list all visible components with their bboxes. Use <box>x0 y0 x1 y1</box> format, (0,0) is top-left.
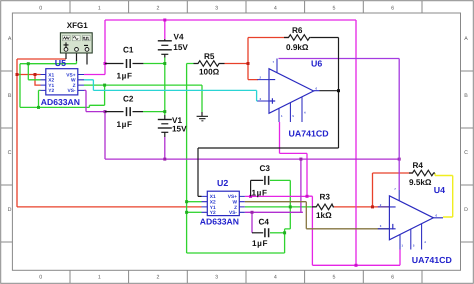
svg-text:B: B <box>8 93 12 99</box>
svg-text:1µF: 1µF <box>117 71 133 80</box>
svg-text:X1: X1 <box>48 72 54 78</box>
svg-text:1kΩ: 1kΩ <box>316 211 332 220</box>
wire magenta V4 top stub <box>164 20 166 39</box>
svg-text:Y1: Y1 <box>48 83 54 89</box>
svg-text:B: B <box>464 93 468 99</box>
wire green bottom loop to C4/C3 <box>187 180 291 253</box>
svg-text:6: 6 <box>391 5 394 11</box>
svg-text:A: A <box>8 36 12 42</box>
multiplier U2 AD633AN <box>200 178 245 227</box>
wire green XFG~ down <box>76 61 78 64</box>
wire green C2 right <box>143 111 165 113</box>
pin numbers U6 <box>260 60 318 118</box>
resistor R6 <box>284 26 310 52</box>
battery V4 <box>158 41 172 55</box>
svg-text:Y1: Y1 <box>210 205 216 211</box>
svg-text:Z: Z <box>73 83 76 89</box>
wire red left border vertical <box>16 59 18 207</box>
svg-text:C3: C3 <box>260 164 271 173</box>
svg-text:C: C <box>464 150 468 156</box>
op-amp U4 UA741CD <box>378 185 452 265</box>
svg-text:R3: R3 <box>320 193 331 202</box>
wire green left loop <box>20 64 105 108</box>
capacitor C4 <box>252 218 269 248</box>
svg-text:15V: 15V <box>172 124 187 133</box>
wire magenta U2 VS+ <box>245 195 307 197</box>
svg-text:W: W <box>232 200 237 206</box>
svg-text:AD633AN: AD633AN <box>41 97 80 107</box>
wire violet to U2 VS- <box>245 159 303 212</box>
wire net: magenta +15 rail <box>84 20 400 265</box>
resistor R4 <box>409 161 435 187</box>
function generator XFG1 <box>60 21 92 53</box>
wire green battery mid vertical <box>164 58 166 116</box>
wire black V1 stubs <box>164 115 166 137</box>
svg-text:VS+: VS+ <box>66 72 75 78</box>
wire violet U5 VS- down <box>84 90 105 111</box>
multiplier U5 AD633AN <box>41 58 85 107</box>
svg-text:4: 4 <box>274 275 277 281</box>
svg-text:Y2: Y2 <box>48 88 54 94</box>
wire green to U5 X2 <box>28 64 40 80</box>
svg-text:UA741CD: UA741CD <box>289 128 329 138</box>
wire green to U2 X2 <box>187 201 202 203</box>
wire violet C4 left <box>251 212 253 233</box>
wire magenta right tall vertical <box>355 20 357 265</box>
wire green C1 right to battery mid <box>143 63 164 65</box>
pin numbers U4 <box>380 187 438 247</box>
svg-text:0.9kΩ: 0.9kΩ <box>286 43 309 52</box>
wire black C3 left to VS+ <box>251 180 264 196</box>
wire red to U5 X1 <box>17 74 41 76</box>
svg-text:R5: R5 <box>204 52 215 61</box>
svg-text:VS-: VS- <box>68 88 76 94</box>
wire net: orchid V+ rail U6/U4 pin7 <box>279 59 400 191</box>
op-amp U6 UA741CD <box>257 59 328 139</box>
svg-text:D: D <box>8 207 12 213</box>
wire green top horizontal <box>20 63 77 65</box>
wire magenta U2 VS- down loop <box>312 250 400 266</box>
svg-text:0: 0 <box>39 275 42 281</box>
svg-text:VS-: VS- <box>229 210 237 216</box>
battery V1 <box>158 120 172 133</box>
svg-text:C: C <box>8 150 12 156</box>
junction dot black <box>337 89 340 92</box>
wire violet vertical x105 <box>104 112 106 160</box>
svg-text:Z: Z <box>234 205 237 211</box>
wire green U2 Z to R3 <box>245 206 316 208</box>
svg-text:R6: R6 <box>292 26 303 35</box>
svg-text:100Ω: 100Ω <box>199 68 220 77</box>
wire net: black <box>66 38 339 233</box>
ground <box>197 116 208 120</box>
wire magenta U6 pin4 down <box>280 122 313 265</box>
wire black C1 stubs <box>105 63 143 65</box>
wire green C4 right <box>270 232 285 234</box>
wire net: yellow U4 output to R4 <box>435 173 453 217</box>
svg-text:2: 2 <box>157 5 160 11</box>
svg-text:3: 3 <box>215 275 218 281</box>
wire black ground stub <box>201 112 203 116</box>
svg-text:0: 0 <box>39 5 42 11</box>
wire net: violet -15 rail <box>84 90 399 232</box>
svg-text:2: 2 <box>157 275 160 281</box>
wire red bottom long to U2 Y1 <box>17 206 202 208</box>
svg-text:A: A <box>464 36 468 42</box>
svg-text:Y2: Y2 <box>210 210 216 216</box>
wire violet long horizontal <box>105 158 399 160</box>
wire magenta left vertical to U5 VS+ <box>84 20 105 75</box>
svg-text:C4: C4 <box>259 218 270 227</box>
svg-text:1µF: 1µF <box>117 120 133 129</box>
wire green to U5 Y2 <box>39 90 41 107</box>
svg-text:U6: U6 <box>311 59 322 69</box>
junction dots magenta <box>104 19 358 267</box>
svg-text:5: 5 <box>333 5 336 11</box>
svg-text:U4: U4 <box>434 185 445 195</box>
wire violet V1 bottom stub <box>164 137 166 159</box>
svg-text:X2: X2 <box>48 78 54 84</box>
junction dots red <box>16 62 375 208</box>
resistor R3 <box>312 193 334 220</box>
svg-text:1µF: 1µF <box>252 188 268 197</box>
svg-text:U5: U5 <box>55 58 66 68</box>
svg-text:R4: R4 <box>413 161 424 170</box>
svg-text:1µF: 1µF <box>252 239 268 248</box>
capacitor C1 <box>117 46 134 81</box>
wire black R6 right to U6 out, down to U2 X1 <box>198 38 339 197</box>
wire red R5 right to U6 inv <box>225 38 259 80</box>
wire green to U2 Y2 <box>187 211 202 213</box>
wire green R5 left down to U2 <box>187 64 194 254</box>
svg-text:V4: V4 <box>174 32 184 41</box>
wire magenta top horizontal <box>105 19 356 21</box>
svg-text:4: 4 <box>274 5 277 11</box>
svg-text:9.5kΩ: 9.5kΩ <box>409 178 432 187</box>
wire green U5 Z to ground <box>84 85 202 112</box>
svg-text:AD633AN: AD633AN <box>200 217 239 227</box>
svg-text:UA741CD: UA741CD <box>412 255 452 265</box>
svg-text:W: W <box>71 78 76 84</box>
wire black C2 stubs <box>105 111 143 113</box>
svg-text:5: 5 <box>333 275 336 281</box>
wire black C4 left stub <box>252 232 263 234</box>
svg-text:X1: X1 <box>210 194 216 200</box>
svg-text:6: 6 <box>391 275 394 281</box>
svg-text:XFG1: XFG1 <box>67 21 88 30</box>
resistor R5 <box>194 52 225 77</box>
svg-text:1: 1 <box>98 275 101 281</box>
svg-text:C2: C2 <box>123 95 134 104</box>
wire net: brown U2 W to U4 + <box>245 202 390 229</box>
capacitor C2 <box>117 95 134 129</box>
junction dots violet <box>104 110 401 214</box>
wire red to R6 left <box>248 37 289 39</box>
junction dots green <box>27 62 292 234</box>
svg-text:U2: U2 <box>217 178 228 188</box>
wire net: red <box>17 38 413 207</box>
capacitor C3 <box>252 164 271 198</box>
wire red XFG+ to border <box>17 58 66 60</box>
wire black XFG terminal stubs <box>66 51 87 64</box>
svg-text:X2: X2 <box>210 200 216 206</box>
wire black V4 stubs <box>164 39 166 58</box>
svg-text:1: 1 <box>98 5 101 11</box>
wire red R3 to U4 inv and R4 left <box>334 173 413 207</box>
svg-text:VS+: VS+ <box>228 194 237 200</box>
svg-text:C1: C1 <box>123 46 134 55</box>
svg-text:3: 3 <box>215 5 218 11</box>
svg-text:15V: 15V <box>173 43 188 52</box>
svg-text:D: D <box>464 207 468 213</box>
wire net: cyan U5 W to U6 + <box>84 80 258 101</box>
wire net: green <box>20 58 316 254</box>
wire red to U5 Y1 <box>35 75 41 86</box>
